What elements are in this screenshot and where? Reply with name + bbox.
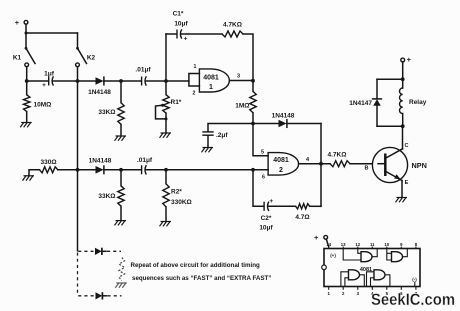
dashed vertical	[77, 253, 79, 296]
node row1 / K2 line	[76, 79, 80, 83]
wire C2 branch	[253, 170, 264, 207]
wire terminal to relay top	[402, 62, 404, 79]
svg-text:4081: 4081	[273, 157, 289, 164]
wire row1 seg D	[104, 80, 141, 82]
svg-text:11: 11	[370, 242, 375, 247]
diode dashed 1	[95, 248, 106, 255]
resistor 1M ohm	[235, 81, 256, 124]
resistor 4.7K ohm feedback	[222, 22, 243, 38]
ground R2	[160, 221, 172, 226]
IC gate D	[374, 270, 385, 280]
battery + terminal IC	[314, 233, 328, 242]
wire 4.7 ohm to vertical	[310, 205, 321, 207]
ground ghost	[115, 283, 127, 288]
gate U1B 4081	[262, 153, 299, 181]
wire K1 upper lead	[25, 33, 27, 47]
IC pin stubs bottom	[329, 287, 416, 290]
node row1 left	[25, 79, 29, 83]
svg-text:(+): (+)	[330, 253, 336, 258]
svg-text:SeekIC.com: SeekIC.com	[371, 291, 455, 309]
node 33K row1	[119, 79, 123, 83]
wire K1 to row1	[26, 67, 28, 81]
IC pin stubs top	[329, 247, 416, 249]
wire node to diode	[253, 123, 279, 125]
svg-text:E: E	[405, 180, 409, 186]
capacitor .01uf row2	[137, 157, 153, 175]
svg-text:1N4148: 1N4148	[88, 89, 111, 96]
svg-text:4.7Ω: 4.7Ω	[295, 214, 309, 221]
svg-text:4081: 4081	[203, 75, 219, 82]
node 1M bottom	[251, 122, 255, 126]
battery + terminal relay	[401, 55, 412, 64]
wire diode branch lower	[376, 106, 378, 126]
svg-text:B: B	[365, 166, 369, 172]
wire emitter down	[401, 181, 403, 198]
node row2 / K2 line	[76, 168, 80, 172]
node output/feedback	[319, 162, 323, 166]
svg-text:1N4148: 1N4148	[89, 158, 112, 165]
dashed resistor ghost	[119, 258, 125, 281]
svg-text:+: +	[42, 82, 46, 89]
svg-text:330Ω: 330Ω	[40, 159, 56, 166]
IC 4081 pinout	[324, 249, 420, 287]
resistor R2* 330K	[163, 170, 192, 222]
trimmer R1*	[156, 81, 182, 133]
IC notch	[322, 265, 327, 270]
svg-text:C1*: C1*	[173, 11, 184, 18]
svg-text:1μf: 1μf	[44, 71, 55, 78]
ground row2 left	[23, 175, 35, 180]
ground 33K row2	[115, 220, 127, 225]
wire relay bottom horizontal	[377, 125, 403, 127]
IC pin numbers bottom	[328, 291, 418, 296]
ground emitter	[396, 197, 408, 202]
dashed branch 2	[78, 295, 94, 297]
svg-text:4.7KΩ: 4.7KΩ	[223, 22, 242, 29]
op-amp gate input bracket	[189, 74, 200, 87]
wire terminal to top rail	[25, 24, 27, 33]
svg-text:10MΩ: 10MΩ	[34, 102, 52, 109]
wire row2 start	[29, 170, 40, 176]
svg-text:33KΩ: 33KΩ	[98, 193, 115, 200]
wire top rail	[26, 32, 78, 34]
wire C1 top left	[166, 33, 177, 35]
diode 1N4148 gate2 feedback	[272, 113, 295, 128]
wire relay top horizontal	[377, 78, 403, 80]
capacitor .01uf row1	[135, 67, 151, 86]
svg-text:.01μf: .01μf	[137, 157, 153, 164]
wire gate2 output pin4	[299, 163, 330, 165]
capacitor C2* 10uf	[259, 198, 273, 232]
svg-text:1: 1	[194, 64, 197, 70]
ground 10M	[20, 122, 32, 127]
wire K2 vertical down through row1 and row2	[77, 67, 79, 251]
resistor 4.7K base	[328, 152, 350, 167]
IC gate C wires	[341, 272, 364, 287]
ground 33K row1	[115, 136, 127, 141]
resistor 33K row2	[98, 170, 124, 221]
svg-text:K1: K1	[13, 55, 22, 62]
diode 1N4148 row2	[89, 158, 112, 174]
transistor Q1 NPN	[372, 143, 427, 186]
node R2	[164, 168, 168, 172]
IC gate D wires	[367, 272, 390, 287]
svg-text:C2*: C2*	[261, 215, 272, 222]
svg-text:1MΩ: 1MΩ	[235, 103, 249, 110]
resistor 10M ohm	[24, 81, 52, 122]
svg-text:3: 3	[237, 74, 240, 80]
wire gate1 output pin3	[230, 80, 254, 82]
resistor 4.7 ohm	[295, 204, 309, 221]
IC (-) lead	[414, 282, 416, 287]
svg-text:R2*: R2*	[171, 189, 182, 196]
wire to base	[350, 163, 372, 165]
svg-text:R1*: R1*	[171, 99, 182, 106]
svg-text:+: +	[269, 198, 273, 205]
gate U1A 4081	[193, 64, 230, 97]
ground .2uf	[202, 147, 214, 152]
svg-text:C: C	[405, 143, 409, 149]
capacitor .2uf	[202, 132, 228, 147]
svg-text:1: 1	[209, 84, 213, 91]
capacitor 1uf	[42, 71, 55, 89]
svg-text:(-): (-)	[412, 277, 417, 282]
wire terminal to pin14	[326, 239, 328, 247]
wire C2 to 4.7 ohm	[268, 205, 295, 207]
svg-text:10μf: 10μf	[174, 21, 188, 28]
node pin3	[251, 79, 255, 83]
node C2 branch	[251, 168, 255, 172]
resistor 330 ohm	[40, 159, 58, 173]
wire node to .2uf	[208, 124, 253, 132]
wire pin5	[253, 124, 268, 156]
node relay top	[401, 77, 405, 81]
resistor 33K row1	[98, 81, 124, 136]
diode dashed 2	[96, 292, 107, 299]
dashed branch 1	[78, 250, 93, 252]
svg-text:10: 10	[384, 242, 389, 247]
IC pin numbers top	[326, 242, 417, 247]
IC gate A	[361, 252, 372, 262]
svg-text:.01μf: .01μf	[135, 67, 151, 74]
svg-text:Repeat of above circuit for ad: Repeat of above circuit for additional t…	[131, 262, 260, 269]
svg-text:Relay: Relay	[409, 99, 427, 106]
wire row1 seg E	[146, 80, 189, 82]
node R1 / C1 junction	[164, 79, 168, 83]
svg-text:330KΩ: 330KΩ	[171, 199, 192, 206]
svg-text:1N4147: 1N4147	[349, 100, 372, 107]
node 33K row2	[119, 168, 123, 172]
svg-text:12: 12	[355, 242, 360, 247]
svg-text:.2μf: .2μf	[216, 132, 228, 139]
note text	[131, 262, 272, 282]
switch K1	[13, 47, 35, 67]
capacitor C1* 10uf	[173, 11, 189, 43]
wire collector up	[402, 126, 404, 149]
battery + terminal top-left	[15, 18, 28, 27]
svg-text:5: 5	[261, 150, 264, 156]
diode 1N4148 row1	[88, 77, 111, 96]
wire 4.7K to output node	[243, 34, 253, 81]
wire row2 seg B	[104, 169, 141, 171]
IC gate B wires	[387, 249, 408, 261]
svg-text:14: 14	[326, 242, 331, 247]
IC gate A wires	[343, 249, 377, 261]
svg-text:33KΩ: 33KΩ	[98, 109, 115, 116]
node top rail corner	[25, 32, 28, 35]
wire row2 seg A	[58, 169, 96, 171]
svg-text:+: +	[184, 36, 188, 43]
svg-text:NPN: NPN	[412, 161, 427, 170]
wire diode to right vertical	[287, 123, 321, 125]
svg-text:4.7KΩ: 4.7KΩ	[328, 152, 347, 159]
wire C1 branch vertical	[165, 34, 167, 81]
node relay bottom	[401, 124, 405, 128]
svg-text:+: +	[314, 233, 319, 242]
wire row1 seg B	[53, 80, 78, 82]
wire row2 seg C	[146, 169, 268, 171]
wire row1 seg A	[27, 80, 48, 82]
relay coil	[400, 79, 427, 126]
wire row1 seg C	[78, 80, 96, 82]
switch K2	[76, 47, 96, 67]
wire C1 to 4.7K	[181, 33, 222, 35]
dashed branch 2 right	[108, 295, 122, 297]
wire K2 upper lead	[77, 33, 79, 47]
diode 1N4147	[349, 99, 381, 107]
svg-text:2: 2	[279, 167, 283, 174]
svg-text:sequences such as “FAST” and “: sequences such as “FAST” and “EXTRA FAST…	[132, 275, 271, 282]
svg-text:13: 13	[341, 242, 346, 247]
IC gate B	[392, 252, 403, 262]
wire diode branch upper	[376, 79, 378, 99]
svg-text:2: 2	[193, 91, 196, 97]
wire right vertical feedback	[320, 124, 322, 207]
svg-text:+: +	[15, 18, 20, 27]
svg-text:6: 6	[262, 175, 265, 181]
dashed branch 1 right	[107, 250, 121, 252]
IC gate C	[349, 270, 360, 280]
svg-text:10μf: 10μf	[259, 225, 273, 232]
svg-text:+: +	[407, 55, 412, 64]
ground R1	[160, 133, 172, 138]
svg-text:K2: K2	[87, 55, 96, 62]
svg-text:1N4148: 1N4148	[272, 113, 295, 120]
